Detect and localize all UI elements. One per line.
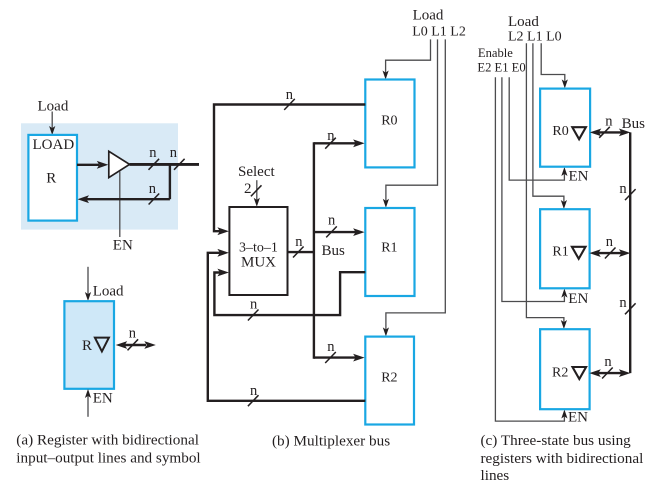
- slash n mark bus segment R1-R2: [625, 303, 636, 314]
- svg-text:Enable: Enable: [478, 46, 513, 60]
- svg-text:n: n: [605, 113, 613, 129]
- svg-text:n: n: [295, 234, 303, 250]
- svg-text:n: n: [328, 213, 336, 229]
- svg-text:R1: R1: [381, 241, 397, 256]
- svg-text:lines: lines: [481, 467, 510, 484]
- register R1 (panel c): [540, 209, 590, 288]
- svg-text:R: R: [46, 171, 56, 187]
- slash n mark (symbol): [128, 339, 139, 350]
- svg-text:Bus: Bus: [322, 243, 346, 259]
- slash n mark MUX output: [293, 247, 304, 258]
- bidirectional wire R0 to bus: [590, 129, 631, 137]
- svg-text:Select: Select: [238, 164, 275, 180]
- svg-text:n: n: [327, 339, 335, 355]
- inverted triangle R1 (panel c): [572, 247, 586, 259]
- inverted triangle R0 (panel c): [572, 127, 586, 139]
- svg-text:(a) Register with bidirectiona: (a) Register with bidirectional: [16, 431, 199, 448]
- bus vertical wire (panel c): [629, 132, 631, 373]
- svg-text:R1: R1: [552, 245, 568, 260]
- wire R0 output to MUX input 0: [214, 105, 365, 236]
- svg-text:R0: R0: [381, 114, 397, 129]
- slash n mark R2 bidir: [602, 368, 613, 379]
- svg-text:L0 L1 L2: L0 L1 L2: [412, 25, 466, 40]
- svg-text:Load: Load: [93, 284, 124, 300]
- wire EN control of buffer: [119, 172, 121, 238]
- wire L1 load control to R1: [383, 39, 438, 207]
- bidirectional wire R2 to bus: [589, 369, 630, 377]
- svg-text:LOAD: LOAD: [33, 137, 75, 153]
- slash n mark feedback: [149, 194, 160, 205]
- slash n mark R0 bidir: [599, 127, 610, 138]
- svg-text:n: n: [286, 87, 294, 103]
- svg-text:n: n: [327, 128, 335, 144]
- register R2 (panel b): [365, 337, 414, 425]
- slash n mark R1 output: [248, 310, 259, 321]
- svg-text:E2 E1 E0: E2 E1 E0: [477, 61, 525, 75]
- caption (c): [481, 432, 644, 484]
- slash n mark outer segment: [174, 159, 185, 170]
- svg-text:(b) Multiplexer bus: (b) Multiplexer bus: [272, 432, 390, 449]
- wire feedback junction vertical: [169, 164, 171, 199]
- wire E0 enable control to R0 EN (panel c): [509, 77, 567, 180]
- svg-text:Load: Load: [38, 99, 69, 115]
- wire bus branch to R2 input: [314, 354, 365, 362]
- slash 2 mark on select: [251, 185, 262, 196]
- bidirectional wire R1 to bus: [589, 249, 630, 257]
- shaded region (panel a background): [21, 123, 178, 229]
- slash n mark bus segment R0-R1: [625, 189, 636, 200]
- svg-text:R0: R0: [552, 124, 568, 139]
- three-state buffer (panel a): [109, 151, 130, 177]
- slash n mark R0 output: [284, 99, 295, 110]
- svg-text:Load: Load: [413, 8, 444, 24]
- svg-text:n: n: [250, 296, 258, 312]
- wire register output to buffer: [77, 161, 108, 169]
- wire L2 load control to R2 (panel c): [526, 43, 567, 329]
- wire feedback into register: [78, 195, 170, 203]
- svg-text:input–output lines and symbol: input–output lines and symbol: [16, 449, 200, 466]
- svg-text:n: n: [250, 383, 258, 399]
- svg-text:n: n: [170, 145, 178, 161]
- wire Load control (symbol): [85, 267, 91, 301]
- register R (detailed, LOAD): [28, 135, 77, 221]
- register R0 (panel b): [365, 80, 414, 168]
- register R0 (panel c): [540, 89, 590, 167]
- svg-text:MUX: MUX: [241, 254, 276, 270]
- svg-text:(c) Three-state bus using: (c) Three-state bus using: [481, 432, 632, 449]
- wire MUX output to bus: [288, 251, 314, 253]
- svg-text:EN: EN: [569, 169, 589, 185]
- svg-text:n: n: [606, 234, 614, 250]
- svg-text:Bus: Bus: [622, 116, 646, 132]
- svg-text:n: n: [149, 181, 157, 197]
- wire L1 load control to R1 (panel c): [533, 43, 567, 209]
- wire L2 load control to R2: [383, 39, 446, 336]
- bidirectional n bus arrow (symbol): [116, 341, 156, 349]
- wire buffer output line (bidirectional external): [130, 163, 199, 166]
- bus vertical wire (panel b): [313, 142, 315, 359]
- svg-text:R2: R2: [381, 371, 397, 386]
- caption (a): [16, 431, 200, 466]
- svg-text:2: 2: [244, 181, 252, 197]
- register R symbol box: [64, 301, 114, 389]
- inverted triangle R2 (panel c): [573, 367, 587, 379]
- svg-text:Load: Load: [508, 14, 539, 30]
- slash n mark on output: [149, 159, 160, 170]
- svg-text:n: n: [129, 326, 137, 342]
- slash n mark bus to R1: [326, 226, 337, 237]
- svg-text:EN: EN: [93, 391, 113, 407]
- slash n mark R2 output: [248, 395, 259, 406]
- svg-text:R2: R2: [552, 365, 568, 380]
- register R2 (panel c): [540, 329, 590, 409]
- wire R1 output to MUX input 2: [214, 269, 365, 316]
- wire L0 load control to R0 (panel c): [541, 43, 568, 88]
- svg-text:EN: EN: [568, 410, 588, 426]
- wire bus branch to R1 input: [314, 228, 365, 236]
- wire EN control (symbol): [85, 389, 91, 417]
- svg-text:n: n: [619, 181, 627, 197]
- wire Select control into MUX: [254, 180, 260, 207]
- svg-text:L2 L1 L0: L2 L1 L0: [508, 30, 562, 45]
- svg-text:EN: EN: [568, 291, 588, 307]
- wire Load control into register R: [49, 112, 55, 136]
- svg-text:n: n: [604, 354, 612, 370]
- svg-text:registers with bidirectional: registers with bidirectional: [481, 450, 644, 467]
- register R1 (panel b): [365, 208, 414, 296]
- wire E2 enable control to R2 EN (panel c): [495, 77, 567, 421]
- inverted triangle (three-state symbol): [95, 338, 109, 352]
- svg-text:n: n: [619, 295, 627, 311]
- svg-text:EN: EN: [113, 237, 133, 253]
- wire E1 enable control to R1 EN (panel c): [502, 77, 568, 301]
- svg-text:n: n: [149, 145, 157, 161]
- wire L0 load control to R0: [383, 39, 431, 79]
- slash n mark bus to R2: [325, 352, 336, 363]
- wire bus branch to R0 input: [314, 139, 365, 147]
- slash n mark bus to R0: [325, 138, 336, 149]
- 3-to-1 MUX (panel b): [229, 207, 287, 295]
- slash n mark R1 bidir: [605, 248, 616, 259]
- svg-text:R: R: [82, 338, 92, 354]
- wire R2 output to MUX input 1: [208, 249, 365, 401]
